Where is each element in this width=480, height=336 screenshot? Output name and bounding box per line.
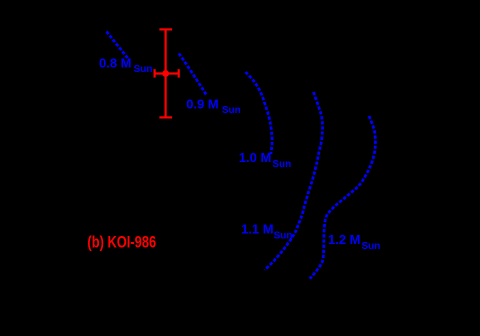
svg-text:1.1 M: 1.1 M xyxy=(241,222,274,237)
track 0.9 Msun xyxy=(179,54,207,97)
svg-text:Sun: Sun xyxy=(222,105,241,116)
track 1.1 Msun xyxy=(265,92,323,270)
label 0.8 Msun xyxy=(99,56,152,75)
svg-text:0.8 M: 0.8 M xyxy=(99,56,132,71)
svg-text:0.9 M: 0.9 M xyxy=(186,96,219,111)
vertical error bar bottom cap xyxy=(159,116,172,118)
horizontal error bar right cap xyxy=(178,69,180,77)
track 1.2 Msun xyxy=(310,116,376,278)
svg-text:Sun: Sun xyxy=(274,230,293,241)
label 1.2 Msun xyxy=(328,232,380,252)
label 1.1 Msun xyxy=(241,222,292,242)
data point marker xyxy=(162,70,169,77)
track 0.8 Msun xyxy=(107,32,129,59)
horizontal error bar left cap xyxy=(154,69,156,77)
svg-text:Sun: Sun xyxy=(134,64,153,75)
data point vertical error bar xyxy=(165,29,167,117)
svg-text:1.2 M: 1.2 M xyxy=(328,232,361,247)
vertical error bar top cap xyxy=(159,28,172,30)
label 0.9 Msun xyxy=(186,96,241,116)
track 1.0 Msun xyxy=(246,72,273,154)
svg-text:(b) KOI-986: (b) KOI-986 xyxy=(87,233,156,252)
svg-text:Sun: Sun xyxy=(272,159,291,170)
data point horizontal error bar xyxy=(155,72,179,74)
label 1.0 Msun xyxy=(239,150,291,170)
svg-text:Sun: Sun xyxy=(362,241,381,252)
svg-text:1.0 M: 1.0 M xyxy=(239,150,272,165)
